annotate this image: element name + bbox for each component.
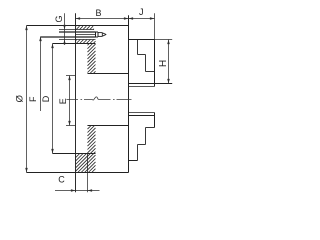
svg-text:F: F [28,96,38,102]
hatch: body hub section upper [88,44,96,74]
dimension F [40,37,42,112]
bore top edge [88,73,129,75]
bolt hole top edge / G extension upper [59,29,94,31]
H extension top [155,39,173,41]
chuck body outline: top edge (flange OD) [27,25,129,27]
dimension E [69,76,71,126]
svg-text:H: H [158,60,169,67]
E extension upper [66,75,76,77]
bore bottom edge [88,125,129,127]
hatch: flange section below bolt hole [76,40,96,44]
boss/hub joint line lower [87,154,89,173]
screw collar [95,32,97,37]
svg-text:Ø: Ø [14,95,25,103]
svg-text:C: C [58,175,65,185]
mounting screw shank bottom line / F extension [41,36,96,38]
mounting screw shank middle line [76,34,96,36]
hatch: body hub section lower [88,126,96,173]
dimension J [129,18,155,20]
E extension lower [66,125,76,127]
bottom jaw outline [129,115,155,117]
svg-text:D: D [41,95,51,102]
dimension C [55,190,100,192]
screw nub [98,32,102,34]
dimension H [168,40,170,84]
top jaw outline [129,39,155,41]
dimension B [76,18,129,20]
front face of chuck body [128,15,130,172]
svg-text:E: E [58,98,68,104]
body step edge D top [53,43,96,45]
svg-text:G: G [54,15,64,22]
svg-text:J: J [139,7,144,17]
chuck body outline: bottom edge (flange OD) [27,172,129,174]
body step edge D bottom [53,153,96,155]
bolt hole bottom edge / G extension lower [59,39,96,41]
screw cone tip [102,33,106,35]
top rear-jaw bar lower line [129,86,155,88]
centerline [67,97,132,100]
dimension D [52,44,54,154]
hatch: backplate boss section lower [76,154,88,173]
C extension right [87,173,89,193]
hatch: flange section above bolt hole [76,26,94,29]
svg-text:B: B [95,8,101,18]
dimension Ø (outer diameter) [26,26,28,173]
bottom rear-jaw bar upper line [129,112,155,114]
dimension G [64,13,66,45]
mounting screw shank top line [59,31,96,33]
back face / backplate left edge [75,13,77,192]
J extension right [154,13,156,39]
top jaw step lines [137,40,139,55]
